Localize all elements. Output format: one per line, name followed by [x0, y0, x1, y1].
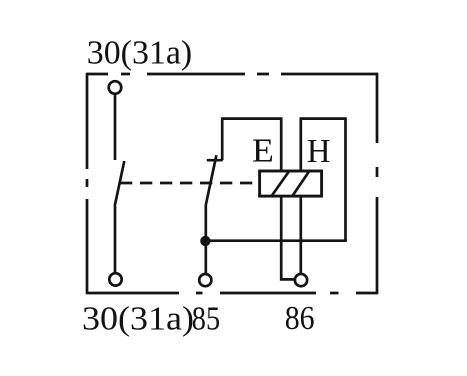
- svg-text:30(31a): 30(31a): [82, 300, 194, 337]
- node junction dot: [200, 236, 210, 246]
- svg-text:30(31a): 30(31a): [87, 34, 192, 71]
- coil hatch stroke 2: [293, 171, 310, 196]
- svg-text:H: H: [307, 133, 331, 170]
- switch S1 moving arm (left contact): [115, 161, 125, 206]
- wire: switch arm to bottom-left terminal: [114, 206, 117, 273]
- terminal 30(31a) bottom circle: [109, 273, 121, 285]
- svg-text:86: 86: [285, 300, 315, 337]
- wire loop: hook up over to E winding top: [222, 119, 281, 171]
- terminal 30(31a) top circle: [109, 81, 122, 94]
- enclosure boundary top (dash-dot): [87, 73, 378, 76]
- enclosure boundary left (dash-dot): [86, 73, 89, 295]
- wire: E winding bottom to terminal 86: [281, 196, 295, 279]
- wire loop: H winding top over and down to junction wire: [301, 119, 346, 241]
- mechanical linkage (dashed): [120, 182, 258, 185]
- terminal 86 circle: [295, 274, 307, 286]
- wire: junction to H loop bottom: [205, 239, 346, 242]
- relay contact fixed hook tick: [207, 159, 223, 162]
- wire: arm down to junction: [204, 205, 207, 275]
- wire: top terminal to switch fixed end: [114, 94, 117, 160]
- relay coil K1 box: [260, 171, 322, 196]
- relay contact moving arm (from terminal 85): [206, 155, 217, 204]
- svg-text:85: 85: [192, 300, 220, 337]
- enclosure boundary bottom (dash-dot): [87, 292, 378, 295]
- coil hatch stroke 1: [272, 171, 290, 196]
- terminal 85 circle: [199, 274, 211, 286]
- svg-text:E: E: [252, 133, 274, 170]
- enclosure boundary right (dash-dot): [376, 73, 379, 293]
- wire: H winding bottom to terminal 86: [299, 196, 302, 274]
